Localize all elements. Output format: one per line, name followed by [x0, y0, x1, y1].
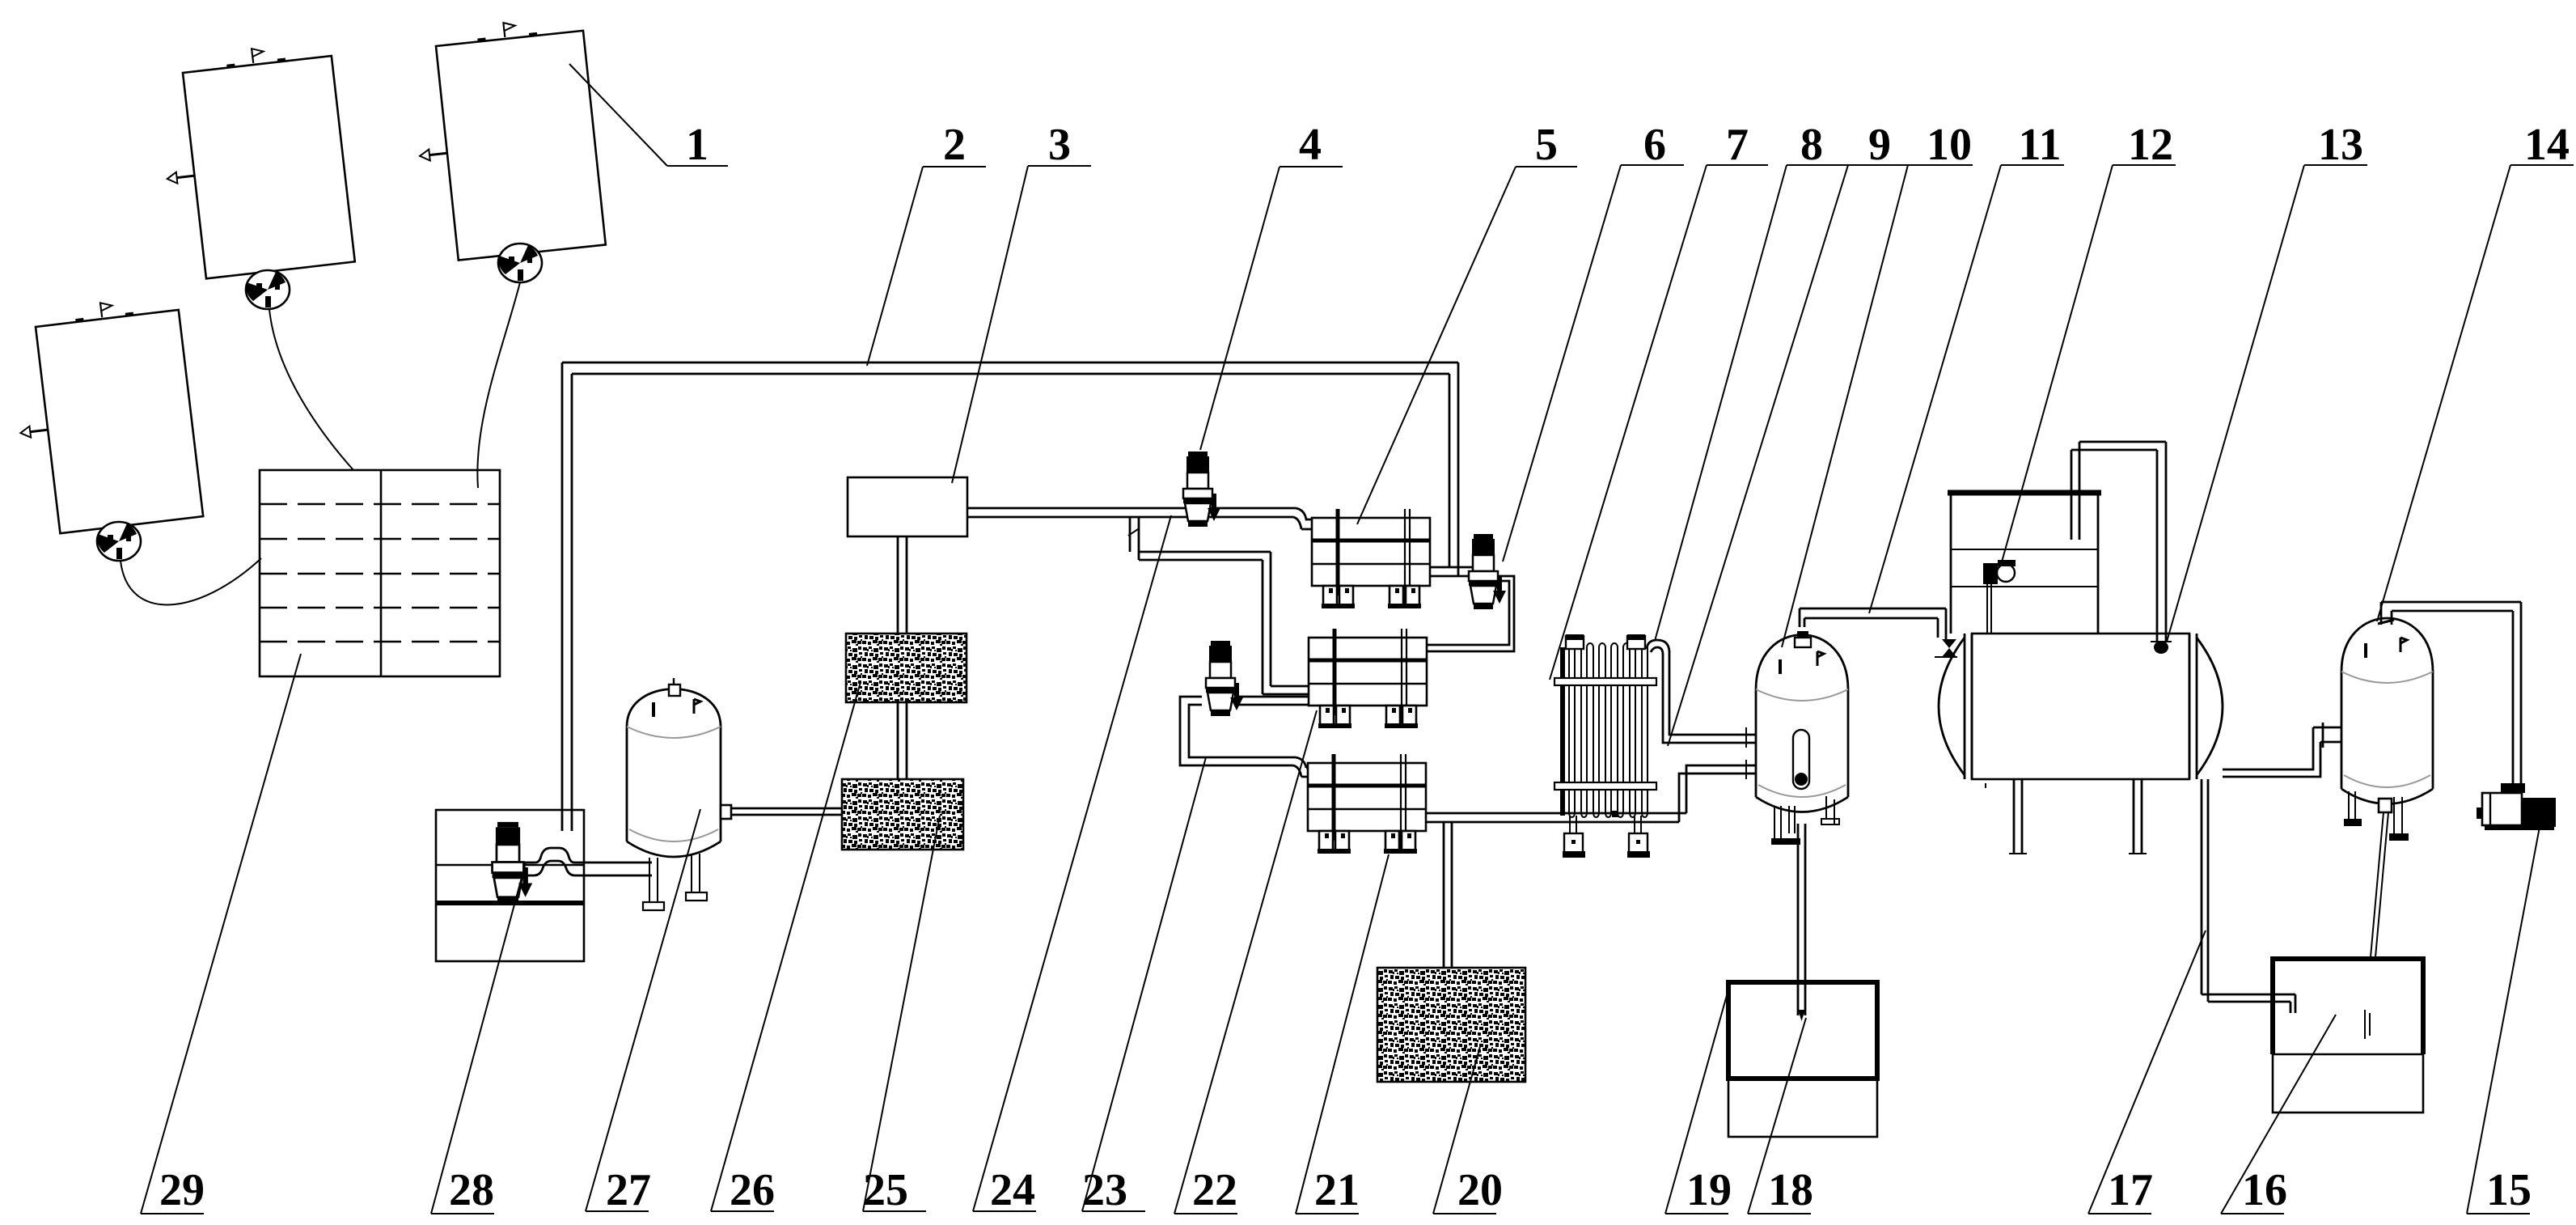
drain pipe filter 21 to waste box 20	[1444, 822, 1452, 968]
flush pipe from box 12 to tank 13 nozzle	[2071, 442, 2166, 642]
control box 3	[848, 477, 967, 536]
label 1	[569, 64, 728, 170]
svg-text:4: 4	[1299, 120, 1322, 170]
pump 22 (middle)	[1206, 641, 1243, 716]
waste box 20 (stippled)	[1377, 968, 1525, 1082]
milking unit 1a (top middle tilted tank)	[154, 40, 355, 282]
S-bend into filter 5	[1293, 508, 1308, 529]
pipe tank 13 to tank 14 nozzle	[2223, 727, 2320, 777]
hose from unit 1b to accumulator	[477, 282, 520, 488]
label 9	[1668, 120, 1910, 746]
tank 13 filler nozzle (black dot)	[2154, 641, 2168, 654]
label 8	[1655, 120, 1850, 641]
label 18	[1748, 1018, 1813, 1215]
label 4	[1200, 120, 1343, 450]
svg-text:29: 29	[159, 1165, 205, 1215]
label 20	[1433, 1044, 1503, 1215]
label 16	[2221, 1015, 2336, 1215]
label 22	[1174, 710, 1317, 1215]
svg-text:15: 15	[2486, 1165, 2532, 1215]
vacuum pump 15	[2477, 783, 2556, 830]
branch riser down to filter 7 inlet	[1263, 552, 1271, 694]
label 17	[2088, 930, 2206, 1215]
svg-text:18: 18	[1768, 1165, 1813, 1215]
tank 14 top pipe to pump 15	[2381, 602, 2521, 783]
label 23	[1082, 757, 1206, 1215]
svg-text:19: 19	[1686, 1165, 1732, 1215]
label 2	[867, 120, 986, 366]
label 7	[1550, 120, 1768, 680]
label 28	[431, 863, 526, 1215]
milk tank 13 (horizontal)	[1939, 634, 2223, 854]
label 21	[1296, 854, 1389, 1215]
label 19	[1665, 984, 1732, 1215]
vacuum main pipe 2 (right drop)	[1449, 362, 1458, 576]
flush box 12 (open top)	[1948, 493, 2101, 634]
pump of unit 1c	[97, 522, 141, 561]
svg-text:6: 6	[1643, 120, 1666, 170]
label 27	[586, 809, 700, 1215]
pipe tank 13 down to wash box 16	[2202, 779, 2295, 1013]
tank 9 top outlet pipe to tank 13	[1800, 608, 1946, 639]
S-bend into filter 21	[1293, 757, 1306, 777]
svg-text:21: 21	[1314, 1165, 1360, 1215]
svg-text:17: 17	[2108, 1165, 2153, 1215]
inlet valve on tank 13	[1942, 639, 1956, 657]
svg-text:11: 11	[2019, 120, 2062, 170]
membrane filter 21	[1308, 754, 1426, 854]
label 14	[2377, 120, 2574, 621]
svg-text:10: 10	[1927, 120, 1972, 170]
settle box 19/18	[1728, 982, 1877, 1137]
label 24	[973, 515, 1171, 1215]
svg-text:20: 20	[1457, 1165, 1503, 1215]
svg-text:26: 26	[730, 1165, 775, 1215]
svg-text:2: 2	[943, 120, 966, 170]
label 25	[863, 816, 940, 1215]
radiator 8 (serpentine heat exchanger)	[1554, 634, 1656, 858]
pump 6	[1469, 534, 1506, 609]
svg-text:14: 14	[2524, 120, 2570, 170]
pump of unit 1a	[246, 270, 290, 309]
filter 21 outlet pipe to radiator 8	[1426, 813, 1686, 822]
buffer tank 27	[627, 678, 721, 910]
label 10	[1782, 120, 1973, 647]
dip pipe from tank 9 into settle box 18	[1798, 824, 1805, 1015]
svg-text:28: 28	[449, 1165, 494, 1215]
milking unit 1c (left tilted tank)	[6, 294, 203, 536]
milking unit 1b (top right tilted tank)	[407, 15, 606, 263]
svg-text:3: 3	[1048, 120, 1071, 170]
branch into filter 7 upper inlet	[1263, 686, 1310, 694]
pump 28 discharge hose to tank 27	[524, 848, 652, 863]
vacuum main pipe 2 (riser)	[562, 362, 572, 831]
membrane filter 5	[1312, 509, 1430, 608]
pipe box3 to pump 4 and filter 5	[967, 508, 1296, 517]
branch junction drop at x1400	[1130, 517, 1139, 560]
label 5	[1357, 120, 1577, 524]
tank 14 bottom drain to box 16	[2379, 799, 2392, 812]
label 26	[711, 682, 861, 1215]
svg-text:7: 7	[1726, 120, 1749, 170]
label 15	[2467, 827, 2540, 1215]
sand filter box 25 (stippled)	[842, 779, 963, 850]
label 11	[1869, 120, 2064, 613]
pump 22 discharge into filter 7	[1239, 697, 1310, 705]
svg-text:27: 27	[606, 1165, 651, 1215]
riser from radiator pipe to tank 9 lower nozzle	[1679, 765, 1757, 822]
svg-text:9: 9	[1868, 120, 1891, 170]
pump 22 suction loop to filter 21	[1180, 697, 1296, 765]
svg-text:8: 8	[1800, 120, 1823, 170]
radiator outlet pipe to tank 9 upper nozzle	[1647, 640, 1757, 743]
hose from unit 1a to accumulator	[269, 309, 353, 470]
pump 6 discharge to filter 7 right inlet	[1427, 576, 1514, 651]
accumulator grid 29	[260, 470, 500, 676]
branch pipe horizontal to riser	[1139, 552, 1271, 560]
svg-text:23: 23	[1082, 1165, 1127, 1215]
svg-text:24: 24	[990, 1165, 1035, 1215]
pipe elbow into filter 5 and pump 6 suction	[1431, 567, 1475, 576]
vacuum main pipe 2 (horizontal run)	[562, 362, 1458, 374]
pump house box 28	[436, 810, 584, 961]
svg-text:12: 12	[2128, 120, 2173, 170]
label 3	[952, 120, 1091, 483]
down pipe box3 to sand filter 26	[898, 536, 907, 634]
pump 28 (in pump house)	[493, 822, 533, 903]
condensate tank 9	[1756, 631, 1848, 845]
label 12	[2001, 120, 2176, 565]
pump 4	[1183, 451, 1220, 527]
label 13	[2167, 120, 2367, 642]
membrane filter 7	[1309, 629, 1427, 728]
svg-text:16: 16	[2242, 1165, 2287, 1215]
wash box 16	[2273, 959, 2423, 1113]
svg-text:1: 1	[686, 120, 709, 170]
svg-text:22: 22	[1192, 1165, 1237, 1215]
storage tank 14	[2341, 618, 2433, 841]
down pipe filter 26 to filter 25	[898, 702, 907, 779]
sand filter box 26 (stippled)	[846, 634, 967, 702]
tank 27 outlet fitting and pipe to filter 25	[721, 805, 731, 819]
hose from unit 1c to accumulator	[121, 558, 261, 604]
label 29	[141, 654, 301, 1215]
svg-text:13: 13	[2318, 120, 2363, 170]
svg-text:5: 5	[1535, 120, 1558, 170]
tank 14 left nozzle	[2313, 723, 2341, 748]
pump of unit 1b	[498, 244, 542, 282]
label 6	[1503, 120, 1684, 562]
